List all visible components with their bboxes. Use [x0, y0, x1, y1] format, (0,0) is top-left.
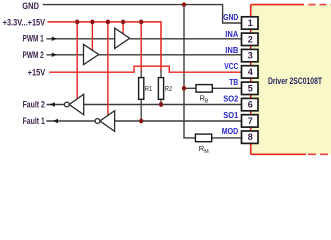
buffer U2 (PWM2) [84, 44, 99, 64]
wire TB [184, 87, 242, 89]
buffer U1 (PWM1) [115, 28, 130, 48]
svg-text:INA: INA [225, 30, 238, 39]
svg-text:GND: GND [22, 1, 39, 12]
svg-text:MOD: MOD [222, 127, 239, 136]
node SO1 junction [139, 119, 143, 124]
svg-text:+3.3V...+15V: +3.3V...+15V [3, 17, 46, 28]
driver IC block U1 (Driver 2SC0108T) [251, 5, 331, 155]
svg-text:7: 7 [248, 116, 253, 126]
resistor RB [196, 85, 212, 105]
wire supply drop to R1 [140, 22, 142, 71]
wire MOD [212, 137, 242, 139]
svg-text:6: 6 [248, 100, 253, 110]
resistor R2 [158, 78, 172, 100]
wire +3.3V..+15V bus [47, 22, 161, 71]
arrow PWM1 input [52, 37, 57, 41]
resistor RM [195, 134, 211, 155]
svg-text:Fault 1: Fault 1 [23, 116, 46, 127]
svg-text:8: 8 [248, 132, 253, 142]
wire GND top rail [43, 5, 242, 23]
wire +15V / VCC [49, 66, 241, 72]
svg-text:PWM 1: PWM 1 [23, 34, 45, 45]
svg-text:Driver 2SC0108T: Driver 2SC0108T [268, 75, 322, 86]
wire supply drop to buffer U2 [91, 22, 93, 50]
wire R1 bottom lead [140, 99, 142, 121]
pin 6 SO2 [242, 98, 259, 110]
node GND junction top [182, 2, 186, 7]
node TB junction [182, 86, 186, 91]
node SO2 junction [159, 102, 163, 107]
arrow PWM2 input [52, 53, 57, 57]
node bus junction A [75, 20, 79, 25]
pin 8 MOD [242, 131, 259, 143]
pin 3 INB [242, 49, 259, 61]
svg-text:SO2: SO2 [223, 94, 239, 103]
wire GND vertical rail [184, 5, 196, 138]
wire supply drop to buffer U1 [122, 22, 124, 34]
svg-text:1: 1 [248, 18, 253, 28]
svg-text:GND: GND [223, 13, 238, 22]
wire R1 top lead [140, 70, 142, 78]
svg-text:TB: TB [229, 78, 238, 87]
svg-text:3: 3 [248, 51, 253, 61]
resistor R1 [139, 78, 152, 100]
svg-text:Fault 2: Fault 2 [23, 100, 45, 111]
pin 7 SO1 [242, 115, 259, 127]
pin 2 INA [242, 33, 259, 45]
pin 5 TB [242, 82, 259, 94]
svg-text:INB: INB [225, 46, 238, 55]
svg-text:R2: R2 [165, 84, 172, 93]
pin 1 GND [242, 17, 259, 29]
svg-text:M: M [204, 149, 208, 155]
svg-text:4: 4 [248, 67, 253, 77]
node bus junction C [106, 20, 110, 25]
node bus junction D [121, 20, 125, 25]
node bus junction E [139, 20, 143, 25]
svg-text:2: 2 [248, 34, 253, 44]
wire R2 bottom lead [160, 99, 162, 104]
svg-text:VCC: VCC [224, 62, 238, 71]
inverter U4 (Fault 2) [64, 94, 83, 115]
svg-text:PWM 2: PWM 2 [23, 50, 44, 61]
pin 4 VCC [242, 66, 259, 78]
svg-text:B: B [205, 98, 209, 104]
svg-text:+15V: +15V [28, 68, 46, 79]
arrow Fault2 output [50, 102, 55, 106]
inverter U3 (Fault 1) [95, 111, 115, 132]
wire SO2 [47, 104, 242, 106]
wire PWM2/INB [47, 54, 242, 56]
wire SO1 [46, 120, 241, 122]
wire PWM1/INA [47, 38, 242, 40]
svg-text:5: 5 [248, 83, 253, 93]
node bus junction B [90, 20, 94, 25]
svg-text:SO1: SO1 [223, 111, 239, 120]
svg-text:R1: R1 [145, 84, 152, 93]
arrow Fault1 output [53, 119, 58, 123]
wire supply drop to inverter U3 [107, 22, 109, 116]
wire supply drop to inverter U4 [76, 22, 78, 99]
wire R2 top lead [160, 70, 162, 78]
